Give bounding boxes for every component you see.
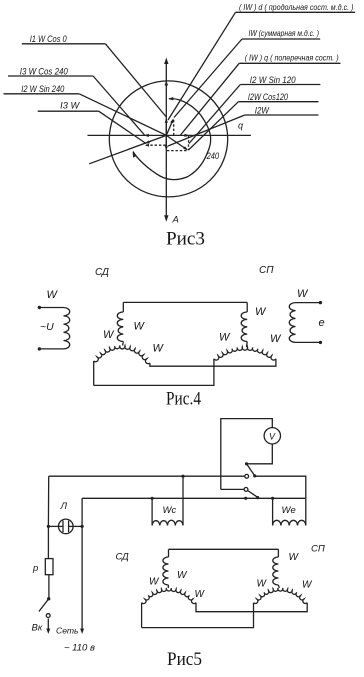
wire 2 fig5 [82, 497, 306, 499]
mains arrow left [46, 619, 50, 635]
junction dot wire2 below switch [244, 497, 247, 500]
wire lamp right [69, 525, 83, 527]
vector I3W Cos240 left arrow on q-axis [144, 134, 149, 137]
svg-text:~ 110 в: ~ 110 в [64, 643, 95, 654]
svg-text:W: W [289, 552, 300, 563]
label (IW)q poperechnaya with leader [181, 53, 341, 135]
vector (IW)q right arrow on q-axis [185, 134, 190, 137]
label (IW)d prodolnaya with leader [168, 3, 355, 120]
svg-text:Вк: Вк [32, 623, 43, 634]
svg-text:I2W: I2W [255, 105, 270, 115]
lamp L [59, 519, 74, 534]
wire voltmeter to blade pivot [247, 444, 273, 464]
angle arc 240 [133, 97, 211, 180]
wire pole2 [221, 488, 244, 490]
q-axis horizontal [88, 134, 251, 136]
svg-text:СД: СД [116, 552, 130, 563]
svg-text:240: 240 [206, 151, 219, 161]
wire switch1 to We right [255, 476, 306, 525]
svg-text:A: A [172, 215, 179, 226]
label I2W Sin 240 with leader [4, 84, 167, 135]
svg-text:I2 W Sin 120: I2 W Sin 120 [250, 75, 296, 85]
SP5 dome windings [254, 588, 308, 603]
svg-text:~U: ~U [40, 321, 54, 333]
junction dot Wc right [181, 475, 184, 478]
svg-text:Л: Л [60, 501, 68, 512]
output winding e terminals [296, 301, 323, 344]
SD5 dome windings [142, 588, 196, 604]
junction dot Wc left [151, 497, 154, 500]
circle locus of MMF vector [109, 81, 227, 197]
wire resistor to switch [48, 575, 50, 598]
svg-text:W: W [149, 577, 160, 588]
switch Vk contact [46, 614, 50, 618]
vector down on d-axis [165, 135, 168, 150]
svg-text:q: q [238, 121, 243, 131]
vector I2W at 120deg [166, 135, 188, 150]
label I3W with leader [38, 101, 146, 144]
svg-text:W: W [177, 570, 188, 581]
wire mid fig4 [150, 359, 276, 366]
SD5 vertical winding [163, 549, 169, 588]
svg-text:Рис5: Рис5 [167, 649, 202, 670]
junction dot lamp right [81, 525, 84, 528]
wire top fig5 [49, 475, 245, 477]
wire top fig4 [123, 301, 247, 303]
label I3W Cos 240 with leader [8, 66, 145, 135]
resistor r [45, 559, 53, 575]
winding Wc [152, 476, 183, 525]
svg-text:Рис.4: Рис.4 [166, 389, 201, 410]
excitation winding ~U coil [64, 308, 70, 349]
dashed projection from IW tip [173, 120, 175, 135]
svg-text:I2W Cos120: I2W Cos120 [248, 92, 288, 102]
svg-text:W: W [153, 343, 165, 355]
dashed projection horizontal below centre [167, 150, 187, 152]
wire mid fig5 groups [196, 603, 307, 612]
d-axis vertical with arrows [164, 58, 168, 222]
SP dome windings [214, 347, 276, 360]
vector IW total [166, 118, 173, 135]
excitation winding ~U terminals [38, 306, 64, 351]
svg-text:IW (суммарная м.д.с. ): IW (суммарная м.д.с. ) [249, 29, 320, 38]
SD dome windings [94, 346, 150, 364]
vector I1W Cos0 up arrow [165, 118, 168, 136]
svg-text:Рис3: Рис3 [166, 229, 205, 250]
output winding e coil [289, 303, 295, 343]
svg-text:I3 W Cos 240: I3 W Cos 240 [20, 66, 68, 76]
label I2W with leader [168, 105, 319, 146]
label I1W Cos 0 with leader [22, 34, 167, 117]
svg-text:р: р [32, 563, 38, 574]
svg-text:Сеть: Сеть [56, 626, 79, 636]
svg-text:Wс: Wс [163, 505, 177, 516]
svg-text:W: W [47, 289, 59, 301]
svg-text:W: W [219, 332, 231, 344]
dashed projection with small arrow left of axis [145, 144, 166, 147]
svg-text:СД: СД [95, 267, 109, 278]
svg-text:Wе: Wе [282, 505, 296, 516]
winding We [273, 498, 306, 525]
line at 240deg with I3W arrow [89, 135, 166, 163]
svg-text:W: W [134, 321, 146, 333]
svg-text:e: e [319, 317, 325, 329]
svg-text:( IW ) d ( продольная сост. м.: ( IW ) d ( продольная сост. м.д.с. ) [239, 3, 354, 12]
svg-text:( IW ) q ( поперечная сост. ): ( IW ) q ( поперечная сост. ) [245, 53, 339, 62]
switch Vk blade [39, 597, 51, 611]
svg-text:W: W [103, 329, 115, 341]
voltmeter loop wire [221, 419, 272, 490]
wire bottom fig5 groups [142, 603, 254, 628]
wire right mains vertical [80, 498, 84, 634]
junction dot We left [271, 497, 274, 500]
label I2W Sin 120 with leader [189, 75, 320, 144]
wire lamp left [48, 525, 63, 527]
wire left vertical fig5 [47, 476, 49, 558]
svg-text:W: W [195, 589, 206, 600]
SP5 vertical winding [273, 549, 280, 588]
svg-text:W: W [255, 306, 267, 318]
switch blade 1 [245, 462, 256, 477]
SP vertical winding [241, 302, 247, 347]
svg-text:W: W [270, 333, 282, 345]
svg-text:I1 W Cos 0: I1 W Cos 0 [30, 34, 67, 44]
voltmeter V [264, 428, 280, 444]
svg-text:I3 W: I3 W [60, 101, 81, 111]
switch blade 2 [248, 491, 260, 500]
label I2W Cos120 with leader [189, 92, 319, 150]
label IW summarnaya with leader [174, 29, 320, 117]
switch contact 2 open circle [244, 488, 248, 492]
wire SD left drop [93, 361, 95, 385]
wire SD5 left drop [141, 603, 143, 628]
dashed projection vertical at q arrow [188, 136, 190, 151]
wire top group fig5 [169, 548, 279, 550]
svg-text:СП: СП [259, 265, 274, 276]
svg-text:W: W [302, 580, 313, 591]
wire bottom fig4 [94, 359, 214, 386]
svg-text:I2 W Sin 240: I2 W Sin 240 [21, 84, 64, 94]
svg-text:W: W [297, 288, 309, 300]
svg-text:V: V [269, 432, 276, 442]
switch contact 1 open circle [245, 474, 249, 478]
SD vertical winding [117, 302, 123, 345]
svg-text:W: W [257, 579, 268, 590]
svg-text:СП: СП [311, 544, 325, 555]
junction dot lamp left [47, 525, 50, 528]
